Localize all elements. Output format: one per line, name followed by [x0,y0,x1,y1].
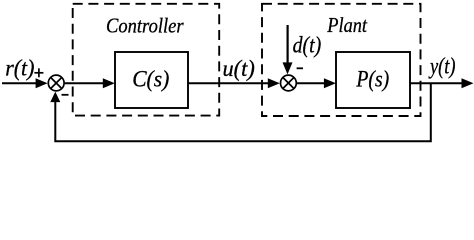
summing junction S1 [48,75,64,91]
svg-text:y(t): y(t) [428,53,455,78]
plus sign at summer S1 [34,68,43,77]
svg-text:d(t): d(t) [293,32,322,57]
summing junction S2 [281,75,297,91]
block C1: controller C(s) [115,52,188,108]
feedback wire from output tap to summer S1 [50,83,431,141]
svg-text:u(t): u(t) [223,56,255,81]
wire: reference input r(t) [2,78,48,88]
svg-text:Plant: Plant [326,13,367,37]
wire: summer S2 to P(s) [297,78,336,88]
wire: output y(t) [410,78,474,88]
svg-text:r(t): r(t) [5,56,34,81]
svg-text:C(s): C(s) [132,67,169,92]
svg-text:Controller: Controller [106,14,184,38]
minus sign at summer S1 (feedback input) [62,94,69,96]
svg-text:P(s): P(s) [356,67,390,92]
wire: error signal to C(s) [65,78,115,88]
block P1: plant P(s) [336,52,410,108]
dashed box: Controller subsystem [73,4,220,116]
dashed box: Plant subsystem [262,4,421,116]
wire: disturbance d(t) into summer S2 [283,25,293,74]
minus sign at summer S2 (disturbance input) [297,67,303,69]
wire: control signal u(t) from C(s) to summer S2 [188,78,280,88]
